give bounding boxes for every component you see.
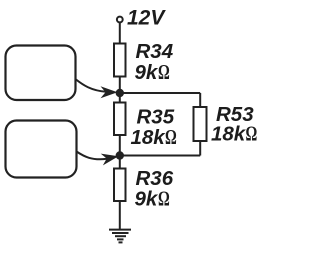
node A (junction dot) bbox=[116, 89, 124, 97]
svg-text:Ω: Ω bbox=[165, 125, 177, 148]
resistor R35 bbox=[114, 103, 126, 136]
resistor R34 bbox=[114, 44, 126, 77]
svg-text:Ω: Ω bbox=[246, 122, 258, 145]
wire: bottom horizontal from node B to R53 branch bbox=[120, 155, 200, 157]
resistor R36 bbox=[114, 169, 126, 202]
svg-text:Ω: Ω bbox=[158, 60, 170, 83]
arrow from callout 2 to node B bbox=[77, 152, 108, 160]
svg-text:Ω: Ω bbox=[158, 187, 170, 210]
svg-text:12V: 12V bbox=[127, 7, 166, 30]
wire: main vertical rail from 12V terminal to ground bbox=[119, 22, 121, 230]
node B (junction dot) bbox=[116, 151, 124, 159]
ground bbox=[109, 230, 131, 243]
resistor R53 bbox=[194, 107, 207, 141]
svg-text:18k: 18k bbox=[211, 123, 247, 146]
svg-text:18k: 18k bbox=[131, 126, 167, 149]
callout box 1 (empty) bbox=[6, 46, 76, 101]
svg-text:9k: 9k bbox=[135, 187, 159, 210]
svg-text:9k: 9k bbox=[135, 61, 159, 84]
wire: right vertical branch through R53 bbox=[199, 93, 201, 156]
wire: top horizontal from node A to R53 branch bbox=[120, 92, 200, 94]
callout box 2 (empty) bbox=[6, 121, 77, 178]
power terminal 12V bbox=[117, 17, 123, 23]
arrow from callout 1 to node A bbox=[76, 80, 106, 92]
